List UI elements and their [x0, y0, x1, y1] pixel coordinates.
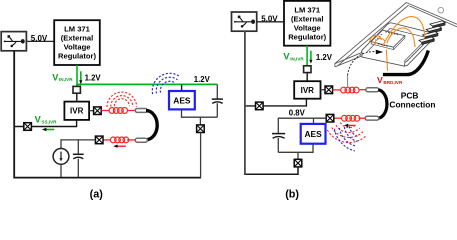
red wire node to coil L3 (b)	[333, 89, 341, 91]
arrow 1.2V down (a)	[79, 71, 82, 84]
label VBRD,IVR red	[377, 75, 403, 85]
red wire coil L4 to node (b)	[334, 117, 342, 119]
wire pad to IVR (a)	[76, 93, 78, 101]
wire node to ground rail (a)	[200, 133, 202, 178]
wire current source to rail (a)	[60, 164, 62, 177]
capacitor C3 (b)	[272, 118, 285, 153]
AES box (a)	[169, 91, 195, 109]
EMI arcs red over L1 (a)	[107, 92, 137, 107]
capacitor C2 (a)	[212, 85, 223, 118]
svg-text:V: V	[377, 75, 383, 85]
svg-text:IN,IVR: IN,IVR	[59, 77, 73, 82]
die	[371, 30, 405, 47]
current flow arrow red left (a)	[113, 145, 126, 148]
ground rail bottom (a)	[14, 51, 201, 178]
node X on load line (a)	[95, 136, 103, 144]
svg-text:Voltage: Voltage	[294, 23, 321, 32]
current flow arrow red left (b)	[344, 124, 356, 127]
package leads	[419, 21, 445, 45]
green wire regulator to pad (b)	[306, 46, 308, 66]
node X right of IVR (b)	[325, 86, 333, 94]
svg-text:(External: (External	[61, 34, 94, 43]
svg-text:LM 371: LM 371	[294, 5, 321, 14]
label VSS,IVR green (a)	[35, 114, 58, 124]
svg-text:IN,IVR: IN,IVR	[290, 57, 304, 62]
arrow 1.2V down (b)	[309, 51, 312, 64]
svg-text:1.2V: 1.2V	[85, 73, 102, 82]
svg-text:(b): (b)	[285, 189, 299, 201]
wire usb to regulator (a)	[27, 40, 55, 42]
svg-text:0.8V: 0.8V	[289, 109, 306, 118]
wire AES and cap to junction (b)	[278, 144, 313, 153]
svg-text:SS,IVR: SS,IVR	[41, 119, 57, 124]
svg-text:(a): (a)	[90, 189, 104, 201]
svg-text:Regulator): Regulator)	[58, 52, 96, 61]
current source I1 (a)	[53, 149, 69, 165]
svg-text:(External: (External	[291, 14, 324, 23]
pcb pad P1 (a)	[135, 109, 147, 113]
usb source box (b)	[232, 12, 257, 31]
svg-text:1.2V: 1.2V	[316, 53, 333, 62]
svg-text:Connection: Connection	[389, 99, 435, 109]
red wire coil L3 to pad (b)	[359, 89, 366, 91]
dashed annotation arrow to die	[348, 50, 384, 76]
wire 0.8V rail to AES (b)	[313, 118, 315, 124]
package inner rim	[367, 29, 428, 62]
regulator LM 371 box (a)	[54, 20, 100, 65]
die thickness	[371, 36, 405, 50]
thick package connection arc (a)	[146, 111, 157, 140]
node X on upper rail (b)	[255, 102, 263, 110]
EMI arcs red and blue (b)	[327, 123, 366, 152]
svg-text:Regulator): Regulator)	[288, 32, 326, 41]
svg-text:IVR: IVR	[70, 107, 84, 116]
board edge lines	[335, 3, 457, 67]
usb source box (a)	[1, 32, 26, 51]
svg-text:IVR: IVR	[301, 86, 315, 95]
ground rail (b)	[244, 167, 298, 174]
svg-text:Voltage: Voltage	[64, 43, 91, 52]
node X below AES (a)	[197, 125, 205, 133]
IVR box (a)	[64, 102, 89, 120]
pcb pad P3 (b)	[366, 88, 379, 92]
die pad markings	[375, 32, 398, 47]
svg-text:BRD,IVR: BRD,IVR	[383, 80, 403, 85]
thick PCB connection arc (b)	[378, 90, 387, 118]
board via circle	[438, 7, 444, 13]
red wire pad to coil L4 (b)	[358, 117, 365, 119]
green rail 1.2V (a)	[76, 83, 217, 85]
node X below AES (b)	[294, 159, 302, 167]
VSS rail (a)	[14, 126, 77, 128]
upper rail IVR ground (b)	[244, 99, 306, 106]
wire VSS rail to IVR bottom (a)	[76, 120, 78, 127]
wire IVR to node (a)	[89, 110, 94, 112]
IVR box (b)	[294, 81, 320, 99]
inductor coil L4 (b)	[342, 115, 360, 121]
green arrow left under VSS rail (a)	[42, 128, 54, 131]
thick trace package to VBRD (b)	[383, 51, 428, 75]
wire line to current source (a)	[60, 139, 62, 148]
red wire coil L2 to node (a)	[103, 139, 110, 141]
inductor coil L2 (a)	[110, 137, 128, 143]
bond wires orange	[369, 17, 424, 71]
green wire regulator to pad (a)	[76, 65, 78, 86]
pcb pad P2 (a)	[135, 138, 147, 142]
left rail (b)	[244, 31, 246, 175]
node X right of IVR (a)	[94, 107, 102, 115]
red wire pad to coil L2 (a)	[127, 139, 136, 141]
pad node below regulator (b)	[304, 66, 311, 73]
wire IVR to node (b)	[321, 89, 326, 91]
label VIN,IVR green (a)	[52, 72, 73, 82]
svg-text:LM 371: LM 371	[64, 25, 91, 34]
0.8V rail wire (b)	[278, 117, 326, 119]
AES box (b)	[301, 124, 326, 144]
package body top face	[362, 23, 433, 62]
wire usb to regulator (b)	[257, 21, 284, 23]
pcb pad P4 (b)	[365, 116, 379, 120]
red wire node to coil L1 (a)	[101, 110, 109, 112]
wire pad to IVR (b)	[306, 73, 308, 82]
inductor coil L1 (a)	[109, 108, 127, 114]
label VIN,IVR green (b)	[283, 52, 304, 62]
node X on VSS rail (a)	[24, 123, 32, 131]
capacitor C1 (a)	[73, 139, 84, 177]
wire green rail to AES (a)	[181, 85, 183, 92]
pad node below regulator (a)	[73, 86, 80, 93]
svg-text:1.2V: 1.2V	[194, 75, 211, 84]
wire junction to node (b)	[297, 152, 299, 159]
EMI arcs blue at AES (a)	[152, 73, 180, 94]
wire AES bottom junction (a)	[182, 109, 218, 117]
svg-text:AES: AES	[173, 95, 191, 105]
node X on 0.8V rail (b)	[326, 114, 334, 122]
package side thickness	[362, 35, 432, 66]
svg-text:AES: AES	[304, 129, 322, 139]
inductor coil L3 (b)	[341, 87, 359, 93]
regulator LM 371 box (b)	[284, 1, 330, 46]
red wire coil L1 to pad (a)	[128, 110, 136, 112]
leader line from coil (b)	[347, 75, 349, 88]
wire junction to node (a)	[199, 117, 201, 125]
load line wire (a)	[61, 139, 95, 141]
